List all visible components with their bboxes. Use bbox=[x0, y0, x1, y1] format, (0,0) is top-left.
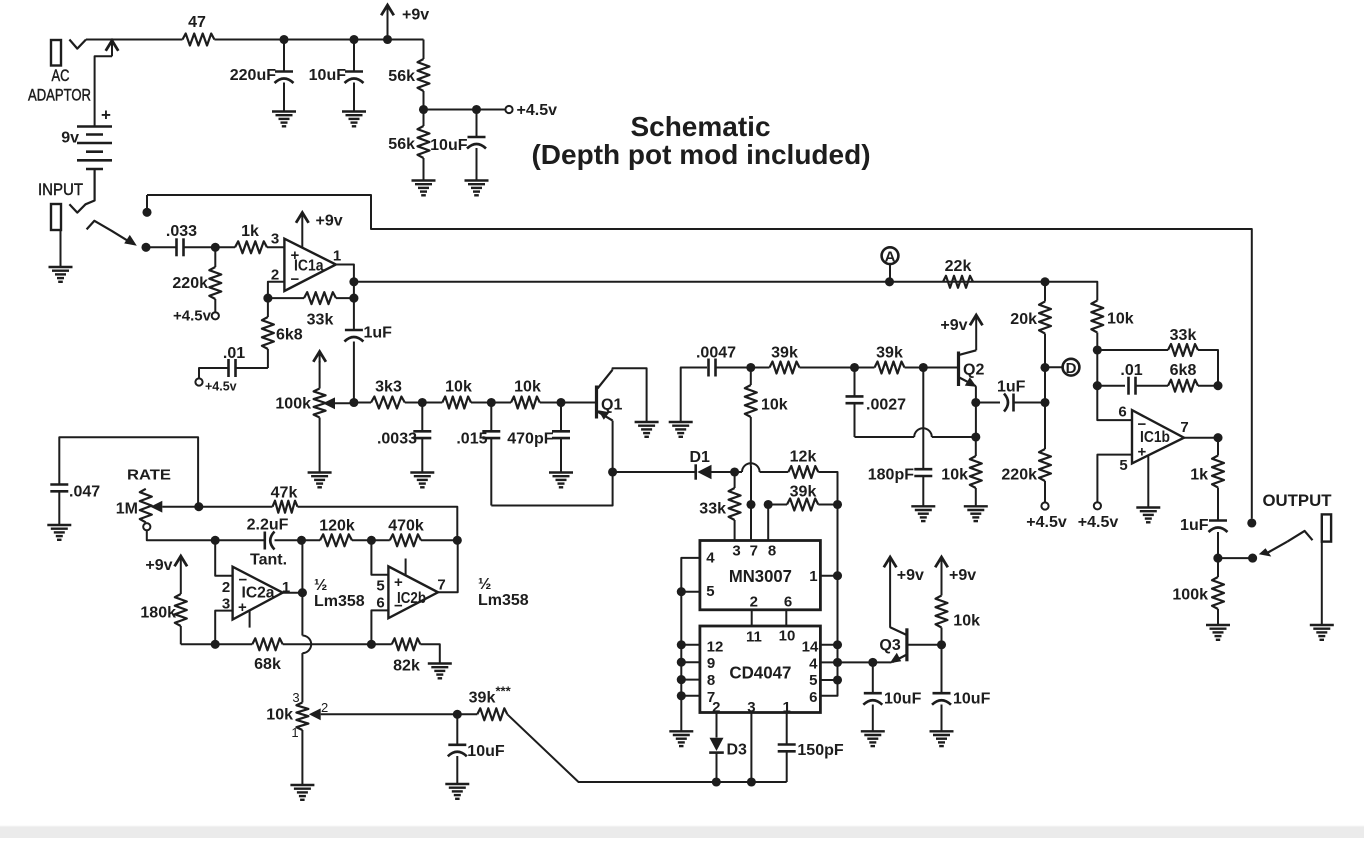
power +9v arrow (rail) bbox=[381, 5, 394, 39]
junction pin14 bbox=[833, 640, 842, 649]
junction 180pF bbox=[919, 363, 928, 372]
label .01 (IC1b fb) bbox=[1120, 362, 1142, 379]
CD4047 pin2 stub bbox=[716, 713, 718, 738]
junction rate wiper bbox=[194, 502, 203, 511]
junction .015 bbox=[487, 398, 496, 407]
wire .0027 to Q2 emitter bbox=[855, 436, 915, 438]
label 56k upper bbox=[388, 68, 415, 85]
svg-text:180k: 180k bbox=[140, 605, 176, 622]
junction 1uF out / 100k bbox=[1213, 554, 1222, 563]
label 39k *** bbox=[469, 684, 512, 707]
junction 10k pulldown bbox=[746, 363, 755, 372]
wire 39k diagonal to 4047 bbox=[507, 714, 786, 782]
svg-text:82k: 82k bbox=[393, 658, 420, 675]
junction 20k top bbox=[1040, 277, 1049, 286]
capacitor .033 bbox=[177, 238, 184, 256]
svg-text:OUTPUT: OUTPUT bbox=[1263, 491, 1333, 510]
wire hop to 12k bbox=[760, 471, 789, 473]
junction pin6 / rail bbox=[367, 640, 376, 649]
wire MN3007 pin5 bbox=[681, 591, 700, 593]
svg-text:33k: 33k bbox=[307, 312, 334, 329]
junction pin8 top bbox=[764, 500, 773, 509]
junction Q3 base / 10uF bbox=[937, 640, 946, 649]
junction at 10uF bbox=[349, 35, 358, 44]
label CD4047 pin 6 bbox=[809, 689, 817, 706]
label CD4047 pin 9 bbox=[707, 655, 715, 672]
wire gnd to C .0047 bbox=[681, 368, 707, 422]
label pot pin 3 bbox=[292, 690, 299, 705]
label battery + bbox=[101, 106, 111, 125]
svg-text:1k: 1k bbox=[1190, 467, 1208, 484]
label Q2 bbox=[963, 362, 984, 379]
junction pin4 bbox=[833, 658, 842, 667]
svg-text:.01: .01 bbox=[223, 345, 245, 362]
wire IC2b pin6 bbox=[371, 610, 388, 644]
junction 56k divider bbox=[419, 105, 428, 114]
svg-text:47: 47 bbox=[188, 14, 206, 31]
wire pin7 vertical bbox=[750, 466, 752, 541]
wire Q1 emitter to D1 bbox=[613, 471, 696, 473]
node D stub bbox=[1045, 366, 1063, 368]
capacitor .015 bbox=[482, 403, 500, 506]
node output effect contact bbox=[1248, 554, 1257, 563]
svg-text:1M: 1M bbox=[116, 501, 138, 518]
node A stub bbox=[889, 264, 891, 282]
label +4.5v source bbox=[517, 102, 558, 119]
resistor 39k *** bbox=[477, 708, 507, 720]
wire wiper to 47k bbox=[199, 506, 273, 508]
junction Q1 emitter / D1 bbox=[608, 467, 617, 476]
wire IC2b pin5 bbox=[371, 540, 388, 574]
svg-text:D: D bbox=[1066, 360, 1077, 377]
resistor 1k bbox=[235, 241, 267, 253]
label Tant. bbox=[250, 552, 287, 569]
junction node D bbox=[1040, 363, 1049, 372]
ground under 10uF a bbox=[861, 731, 885, 746]
label 39k (a) bbox=[771, 345, 798, 362]
svg-text:+9v: +9v bbox=[897, 567, 924, 584]
label +9v 180k bbox=[145, 557, 172, 574]
label 12k bbox=[790, 449, 817, 466]
ground under 56k bbox=[412, 181, 436, 196]
ground left rail bbox=[669, 731, 693, 746]
resistor 22k bbox=[943, 276, 973, 288]
label IC2a pin 2 bbox=[222, 579, 230, 596]
label +9v bbox=[402, 7, 429, 24]
label IC1b pin 7 bbox=[1180, 419, 1188, 436]
svg-text:½: ½ bbox=[314, 577, 327, 594]
wire IC2a out bbox=[283, 592, 303, 594]
title line 2 bbox=[531, 139, 870, 170]
wire MN3007 pin4 bbox=[681, 558, 700, 592]
label 180k bbox=[140, 605, 176, 622]
label 3k3 bbox=[375, 378, 402, 395]
label 10k (b) bbox=[514, 378, 541, 395]
label CD4047 pin 8 bbox=[707, 672, 715, 689]
wire CD4047 right rail bbox=[820, 505, 837, 696]
wire pin8 stub up bbox=[767, 505, 769, 541]
svg-text:AC: AC bbox=[52, 67, 70, 85]
junction Q2 emitter / .0027 bbox=[971, 432, 980, 441]
wire 10k to Q1 base bbox=[540, 402, 595, 404]
terminal +4.5v bias (220k) bbox=[212, 312, 219, 319]
capacitor 10uF (Q3 a) bbox=[863, 662, 882, 730]
potentiometer 10k (lfo depth) bbox=[296, 703, 320, 731]
svg-text:12k: 12k bbox=[790, 449, 817, 466]
svg-text:Lm358: Lm358 bbox=[314, 593, 365, 610]
wire CD4047 left rail bbox=[680, 592, 682, 731]
svg-text:A: A bbox=[885, 248, 896, 265]
svg-text:68k: 68k bbox=[254, 656, 281, 673]
resistor 82k bbox=[392, 638, 421, 650]
wire hop to Q2 emitter node bbox=[932, 436, 976, 438]
svg-text:Q1: Q1 bbox=[601, 397, 622, 414]
MN3007 pin 6 stub bbox=[785, 610, 787, 626]
ground under 100k pot bbox=[308, 473, 332, 488]
label 10uF bbox=[309, 67, 347, 84]
ground under output 100k bbox=[1206, 625, 1230, 640]
label MN3007 bbox=[729, 566, 792, 586]
label IC1a pin 2 bbox=[271, 267, 279, 284]
svg-text:4: 4 bbox=[706, 550, 715, 567]
hop IC2a out over rail bbox=[302, 636, 311, 654]
svg-text:100k: 100k bbox=[275, 396, 311, 413]
junction MN3007 pin1 / rail bbox=[833, 571, 842, 580]
label D1 bbox=[690, 449, 711, 466]
svg-text:+9v: +9v bbox=[949, 567, 976, 584]
resistor 100k (output) bbox=[1212, 558, 1224, 624]
junction 33k fb top bbox=[1093, 345, 1102, 354]
svg-text:2.2uF: 2.2uF bbox=[247, 517, 289, 534]
terminal 1M bottom bbox=[143, 523, 150, 530]
resistor 470k bbox=[390, 534, 421, 546]
IC2b V+ stub bbox=[405, 559, 407, 576]
label IC2a pin 1 bbox=[282, 579, 290, 596]
svg-text:150pF: 150pF bbox=[797, 742, 843, 759]
wire jack to R 47 bbox=[86, 39, 183, 41]
label IC1b pin 6 bbox=[1118, 404, 1126, 421]
node A circle bbox=[882, 247, 899, 265]
wire 100k node to 3k3 bbox=[354, 402, 371, 404]
resistor 120k bbox=[320, 534, 352, 546]
svg-text:Lm358: Lm358 bbox=[478, 592, 529, 609]
label MN3007 pin 1 bbox=[809, 568, 817, 585]
label +4.5v (IC1b) bbox=[1078, 514, 1119, 531]
svg-text:2: 2 bbox=[222, 579, 230, 596]
IC CD4047 body bbox=[700, 626, 821, 713]
junction pins 4-5 bbox=[677, 587, 686, 596]
capacitor .047 bbox=[50, 485, 68, 525]
label IC1a pin 3 bbox=[271, 231, 279, 248]
svg-text:***: *** bbox=[496, 684, 512, 699]
junction node A bbox=[885, 277, 894, 286]
label .047 bbox=[69, 483, 100, 500]
op-amp IC2b bbox=[388, 566, 438, 618]
svg-text:RATE: RATE bbox=[127, 466, 171, 483]
svg-text:20k: 20k bbox=[1010, 311, 1037, 328]
svg-text:10k: 10k bbox=[941, 467, 968, 484]
junction pin3 / rail bbox=[211, 640, 220, 649]
capacitor 180pF bbox=[914, 368, 932, 507]
svg-text:3: 3 bbox=[271, 231, 279, 248]
label 9v bbox=[61, 130, 79, 147]
junction IC1a pin2 node bbox=[263, 294, 272, 303]
junction .01 fb left bbox=[1093, 381, 1102, 390]
svg-text:+4.5v: +4.5v bbox=[1026, 514, 1067, 531]
label .01 (input) bbox=[223, 345, 245, 362]
resistor 10k (b) bbox=[511, 397, 540, 409]
wire 1uF to 220k bbox=[1014, 402, 1046, 404]
label IC2b pin 7 bbox=[437, 577, 445, 594]
junction 12k / 39k / rail bbox=[833, 500, 842, 509]
label CD4047 pin 5 bbox=[809, 672, 817, 689]
wire Q2 to 1uF bbox=[976, 402, 1000, 404]
wire divider to +4.5v terminal bbox=[424, 109, 506, 111]
hop .0027 over 180pF line bbox=[914, 428, 932, 437]
wire pot to ground bbox=[301, 730, 303, 785]
svg-text:220uF: 220uF bbox=[230, 67, 276, 84]
junction pin5 bbox=[833, 675, 842, 684]
INPUT jack J2 bbox=[51, 204, 61, 267]
junction pin12 bbox=[677, 640, 686, 649]
svg-text:.047: .047 bbox=[69, 483, 100, 500]
ground under .047 bbox=[47, 525, 71, 540]
wire 2.2uF to 120k bbox=[275, 539, 321, 541]
transistor Q3 bbox=[890, 627, 942, 663]
label pot pin 2 bbox=[321, 700, 328, 715]
node effect contact (down) bbox=[141, 243, 150, 252]
label OUTPUT bbox=[1263, 491, 1333, 510]
wire IC2a pin2 bbox=[215, 540, 232, 575]
wire 82k to ground bbox=[420, 644, 439, 663]
junction 1uF / 100k wiper / 3k3 bbox=[349, 398, 358, 407]
wire 10k to .01 row bbox=[1096, 350, 1098, 386]
svg-text:470k: 470k bbox=[388, 518, 424, 535]
label CD4047 pin 3 bbox=[747, 699, 755, 716]
wire 39k to Q2 base bbox=[905, 367, 958, 369]
label 10uF (4.5v) bbox=[430, 137, 468, 154]
power +9v arrow 180k bbox=[175, 556, 188, 594]
ground under 10uF bbox=[342, 112, 366, 127]
svg-text:220k: 220k bbox=[172, 275, 208, 292]
wire Q1 collector to ground bbox=[613, 368, 647, 421]
capacitor 220uF bbox=[275, 40, 294, 112]
ground under INPUT jack bbox=[49, 267, 73, 282]
title line 1 bbox=[630, 111, 770, 142]
label CD4047 pin 11 bbox=[746, 629, 762, 646]
resistor 220k (bias) bbox=[1039, 449, 1051, 503]
CD4047 pin12 stub bbox=[681, 644, 700, 646]
label 1k (output) bbox=[1190, 467, 1208, 484]
svg-text:2: 2 bbox=[321, 700, 328, 715]
svg-text:IC2a: IC2a bbox=[242, 585, 275, 602]
svg-text:IC1a: IC1a bbox=[294, 258, 324, 275]
svg-text:6: 6 bbox=[809, 689, 817, 706]
label +9v Q3 bbox=[897, 567, 924, 584]
label CD4047 pin 2 bbox=[712, 699, 720, 716]
label 56k lower bbox=[388, 136, 415, 153]
svg-text:220k: 220k bbox=[1001, 467, 1037, 484]
label 10k (Q2 emitter) bbox=[941, 467, 968, 484]
wire C .033 to R 1k bbox=[184, 246, 236, 248]
label 10k (node to IC1b) bbox=[1107, 311, 1134, 328]
label 33k (osc) bbox=[699, 501, 726, 518]
svg-text:10uF: 10uF bbox=[953, 691, 991, 708]
label 6k8 (IC1a) bbox=[276, 327, 303, 344]
junction IC2a out bbox=[298, 588, 307, 597]
label 33k (IC1a fb) bbox=[307, 312, 334, 329]
svg-text:3: 3 bbox=[292, 690, 299, 705]
svg-text:56k: 56k bbox=[388, 68, 415, 85]
label +4.5v (220k bias) bbox=[1026, 514, 1067, 531]
label +9v 10k Q3 bbox=[949, 567, 976, 584]
svg-text:.0033: .0033 bbox=[377, 431, 417, 448]
svg-text:5: 5 bbox=[809, 672, 817, 689]
wire IC1a output bbox=[336, 265, 354, 308]
svg-text:10k: 10k bbox=[445, 378, 472, 395]
IC MN3007 body bbox=[700, 541, 821, 610]
node D circle bbox=[1063, 359, 1080, 377]
CD4047 pin7 stub bbox=[681, 695, 700, 697]
svg-text:+9v: +9v bbox=[145, 557, 172, 574]
svg-text:470pF: 470pF bbox=[507, 431, 553, 448]
ground stub .0047 bbox=[669, 422, 693, 437]
resistor 10k (Q2 emitter) bbox=[970, 437, 982, 506]
svg-text:7: 7 bbox=[1180, 419, 1188, 436]
wire R 1k to IC1a pin3 bbox=[267, 246, 284, 248]
label +9v IC1a bbox=[316, 213, 343, 230]
capacitor 1uF (IC1a out) bbox=[344, 307, 363, 403]
svg-text:56k: 56k bbox=[388, 136, 415, 153]
svg-text:1uF: 1uF bbox=[1180, 517, 1209, 534]
ground IC1b bbox=[1136, 508, 1160, 523]
label CD4047 pin 14 bbox=[802, 638, 819, 655]
label Q3 bbox=[879, 637, 900, 654]
label 10uF (Q3 b) bbox=[953, 691, 991, 708]
wire 39k to 39k bbox=[800, 367, 875, 369]
label +4.5v (C .01) bbox=[205, 380, 237, 394]
resistor 10k (node to IC1b) bbox=[1091, 300, 1103, 350]
svg-text:10k: 10k bbox=[514, 378, 541, 395]
footer bar bbox=[0, 826, 1364, 838]
label 10k (Q3 base) bbox=[953, 613, 980, 630]
wire 33k fb right bbox=[1198, 350, 1218, 386]
wire IC1a pin2 feedback bbox=[268, 282, 285, 298]
svg-text:.0027: .0027 bbox=[866, 397, 906, 414]
junction .0027 bbox=[850, 363, 859, 372]
label 82k bbox=[393, 658, 420, 675]
label MN3007 pin 3 bbox=[732, 543, 740, 560]
svg-text:39k: 39k bbox=[876, 345, 903, 362]
label 1k bbox=[241, 223, 259, 240]
wire 10k to 10k bbox=[471, 402, 511, 404]
wire rail 68k to 82k bbox=[283, 643, 392, 645]
MN3007 pin 1 stub bbox=[820, 575, 837, 577]
power +9v arrow Q2 bbox=[970, 315, 983, 350]
resistor 47 bbox=[183, 34, 215, 46]
resistor 33k (IC1b fb) bbox=[1168, 344, 1198, 356]
resistor 6k8 (IC1b fb) bbox=[1168, 380, 1198, 392]
capacitor 10uF (4.5v) bbox=[467, 110, 486, 181]
svg-text:.033: .033 bbox=[166, 223, 197, 240]
capacitor .01 (input) bbox=[229, 359, 236, 377]
svg-text:12: 12 bbox=[707, 638, 724, 655]
svg-text:33k: 33k bbox=[1170, 327, 1197, 344]
CD4047 pin4 stub bbox=[820, 661, 837, 663]
label 470k bbox=[388, 518, 424, 535]
op-amp IC1a bbox=[284, 239, 336, 291]
label 39k (b) bbox=[876, 345, 903, 362]
wire Q2 emitter down bbox=[975, 386, 977, 437]
ground under 10k pot bbox=[290, 785, 314, 800]
svg-text:+9v: +9v bbox=[316, 213, 343, 230]
junction 1uF / 220k bbox=[1040, 398, 1049, 407]
label 100k (output) bbox=[1172, 587, 1208, 604]
wire 39k osc bbox=[768, 504, 787, 506]
label MN3007 pin 8 bbox=[768, 543, 776, 560]
svg-text:10k: 10k bbox=[761, 397, 788, 414]
svg-text:2: 2 bbox=[750, 594, 758, 611]
svg-text:(Depth pot mod included): (Depth pot mod included) bbox=[531, 139, 870, 170]
ground under 82k bbox=[428, 664, 452, 679]
svg-text:D3: D3 bbox=[727, 742, 748, 759]
label .0033 bbox=[377, 431, 417, 448]
capacitor 470pF bbox=[552, 403, 570, 473]
op-amp IC2a bbox=[233, 567, 283, 620]
resistor 1k (output) bbox=[1212, 438, 1224, 520]
svg-text:+4.5v: +4.5v bbox=[205, 380, 237, 394]
svg-text:10uF: 10uF bbox=[884, 691, 922, 708]
label Q1 bbox=[601, 397, 622, 414]
svg-text:11: 11 bbox=[746, 629, 762, 646]
wire 20k to 220k bbox=[1044, 368, 1046, 450]
ground under Q2 10k bbox=[964, 506, 988, 521]
ground under 470pF bbox=[549, 473, 573, 488]
label MN3007 pin 2 bbox=[750, 594, 758, 611]
junction IC1a out / signal bbox=[349, 277, 358, 286]
resistor 20k bbox=[1039, 282, 1051, 368]
wire IC2a out down bbox=[301, 593, 303, 636]
wire fb node to IC1b pin6 bbox=[1097, 386, 1131, 420]
label IC1b pin 5 bbox=[1119, 457, 1127, 474]
CD4047 pin5 stub bbox=[820, 679, 837, 681]
svg-text:Schematic: Schematic bbox=[630, 111, 770, 142]
svg-text:ADAPTOR: ADAPTOR bbox=[28, 87, 91, 105]
ground under 180pF bbox=[911, 506, 935, 521]
label 20k bbox=[1010, 311, 1037, 328]
svg-text:7: 7 bbox=[437, 577, 445, 594]
svg-text:D1: D1 bbox=[690, 449, 711, 466]
label 150pF bbox=[797, 742, 843, 759]
terminal +4.5v source bbox=[505, 106, 512, 113]
label 6k8 (IC1b fb) bbox=[1170, 362, 1197, 379]
label 10uF (Q3 a) bbox=[884, 691, 922, 708]
junction at 10uF divider bbox=[472, 105, 481, 114]
svg-text:14: 14 bbox=[802, 638, 819, 655]
wire .01 to 6k8 bbox=[1136, 385, 1169, 387]
wire bypass top run bbox=[147, 195, 1252, 519]
hop 12k wire over pin7 line bbox=[742, 463, 760, 472]
CD4047 pin14 stub bbox=[820, 644, 837, 646]
wire 6k8 right bbox=[1198, 385, 1218, 387]
label MN3007 pin 6 bbox=[784, 594, 792, 611]
label CD4047 pin 10 bbox=[779, 628, 796, 645]
svg-text:6: 6 bbox=[376, 595, 384, 612]
op-amp IC1b bbox=[1132, 410, 1184, 463]
wire to output contact bbox=[1218, 557, 1253, 559]
label 1uF (to D node) bbox=[997, 379, 1026, 396]
ground under .0033 bbox=[410, 473, 434, 488]
